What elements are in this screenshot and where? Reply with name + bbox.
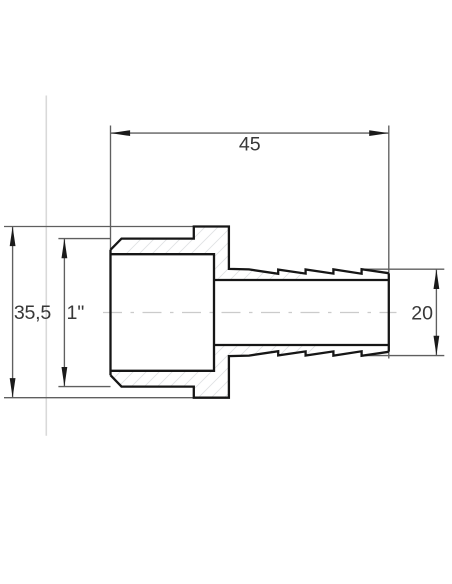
left face bbox=[109, 250, 111, 375]
45 left extension bbox=[110, 126, 112, 250]
tail bore top bbox=[214, 279, 389, 281]
thin dimension/extension lines bbox=[4, 126, 444, 398]
thick outline bbox=[111, 227, 389, 398]
page guide line (faint vertical) bbox=[45, 96, 47, 436]
hatching bottom section bbox=[36, 250, 411, 430]
end face bbox=[388, 273, 390, 351]
20 top extension bbox=[362, 268, 445, 270]
1inch bottom extension bbox=[58, 386, 110, 388]
20 dimension line bbox=[435, 269, 437, 355]
20 top arrow bbox=[434, 269, 440, 289]
45 left arrow bbox=[111, 130, 131, 136]
bottom half outer profile bbox=[111, 351, 389, 398]
20 bottom extension bbox=[363, 355, 445, 357]
1inch top arrow bbox=[62, 239, 68, 259]
1inch dimension line bbox=[63, 239, 65, 387]
svg-text:20: 20 bbox=[411, 302, 433, 324]
1inch top extension bbox=[58, 238, 110, 240]
svg-text:45: 45 bbox=[239, 133, 261, 155]
35.5 top arrow bbox=[10, 227, 16, 247]
20 bottom arrow bbox=[434, 336, 440, 356]
socket bore bbox=[111, 254, 215, 371]
tail bore bottom bbox=[214, 344, 389, 346]
hatching top section bbox=[80, 120, 452, 300]
35.5 dimension line bbox=[12, 227, 14, 398]
35.5 top extension bbox=[4, 226, 194, 228]
35.5 bottom arrow bbox=[10, 378, 16, 398]
top half outer profile with collar and barbs bbox=[111, 227, 389, 274]
svg-text:35,5: 35,5 bbox=[14, 302, 51, 324]
centerline (part axis) bbox=[103, 312, 397, 314]
45 dimension line bbox=[111, 132, 389, 134]
1inch bottom arrow bbox=[62, 367, 68, 387]
arrowheads bbox=[10, 130, 440, 398]
svg-text:1": 1" bbox=[67, 302, 85, 324]
45 right arrow bbox=[369, 130, 389, 136]
45 right extension bbox=[388, 126, 390, 359]
35.5 bottom extension bbox=[4, 397, 194, 399]
